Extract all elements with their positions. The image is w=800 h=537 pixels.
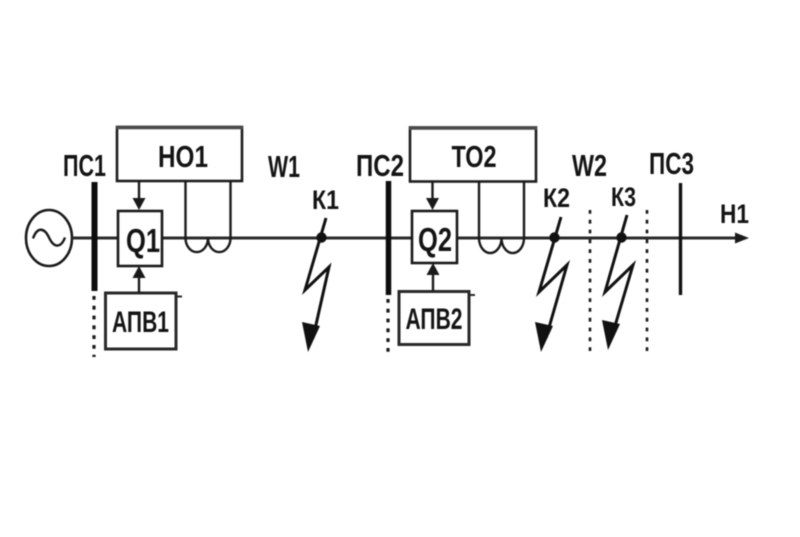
svg-text:W2: W2: [572, 148, 607, 183]
zone dashed line left of K3: [589, 210, 592, 352]
wire main line: [72, 233, 749, 244]
svg-text:НО1: НО1: [158, 139, 208, 174]
bus PS2: [386, 181, 392, 295]
svg-text:Q2: Q2: [418, 221, 452, 258]
svg-text:ТО2: ТО2: [452, 139, 497, 174]
arrow TO2 to Q2: [426, 181, 439, 210]
arrow APV2 to Q2: [427, 263, 440, 291]
svg-text:К1: К1: [312, 185, 339, 215]
generator G: [26, 210, 72, 266]
svg-text:АПВ2: АПВ2: [406, 303, 463, 336]
bus PS1 dashed: [92, 296, 95, 357]
fault bolt K2: [535, 217, 567, 352]
svg-text:ПС2: ПС2: [356, 148, 404, 183]
svg-text:АПВ1: АПВ1: [112, 306, 169, 339]
fault bolt K1: [302, 218, 329, 352]
relay box TO2: [409, 128, 537, 182]
svg-text:К2: К2: [543, 183, 570, 213]
recloser box APV2: [399, 292, 475, 345]
CT W1 current transformer: [186, 181, 231, 252]
svg-text:W1: W1: [268, 149, 300, 184]
bus PS3: [679, 183, 682, 295]
arrow APV1 to Q1: [133, 266, 146, 293]
svg-text:ПС3: ПС3: [649, 146, 694, 181]
svg-text:Н1: Н1: [720, 199, 749, 229]
bus PS2 dashed: [386, 299, 389, 354]
breaker Q2: [412, 211, 457, 263]
CT W2 current transformer: [479, 181, 524, 253]
svg-text:Q1: Q1: [126, 222, 160, 259]
relay box HO1: [116, 127, 243, 181]
fault bolt K3: [602, 215, 633, 350]
node K3 dot: [616, 232, 626, 242]
recloser box APV1: [106, 293, 183, 349]
arrow HO1 to Q1: [133, 181, 146, 210]
bus PS1: [92, 182, 98, 291]
breaker Q1: [118, 211, 162, 266]
svg-text:ПС1: ПС1: [63, 148, 106, 183]
zone dashed line right of K3: [646, 210, 649, 352]
node K1 dot: [316, 232, 326, 242]
node K2 dot: [549, 232, 559, 242]
svg-text:К3: К3: [611, 182, 636, 212]
